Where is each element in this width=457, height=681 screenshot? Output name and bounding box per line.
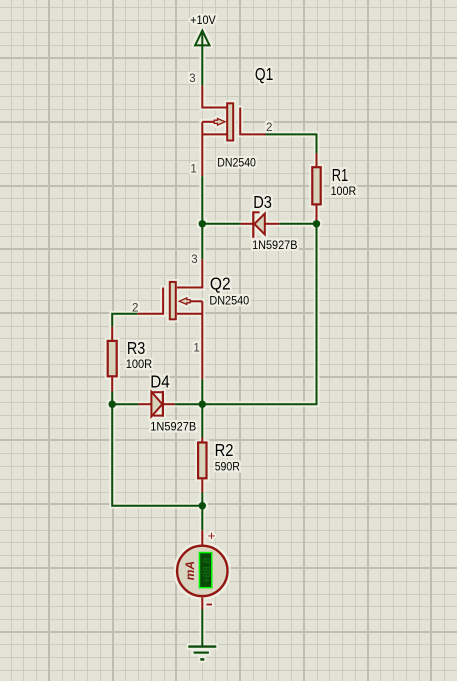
junction node B right [313, 220, 320, 227]
junction node C [199, 401, 206, 408]
ammeter pin top [201, 530, 203, 545]
power arrow symbol [195, 31, 209, 86]
resistor R3 [108, 327, 117, 392]
svg-text:D3: D3 [253, 192, 272, 212]
svg-text:590R: 590R [215, 462, 240, 474]
ground [188, 647, 216, 660]
transistor Q1 [202, 103, 266, 176]
power +10V label [190, 15, 216, 27]
svg-text:100R: 100R [126, 359, 153, 371]
svg-text:mA: mA [183, 561, 197, 580]
wire Q1 source down to node A [201, 176, 203, 224]
resistor R1 [312, 153, 320, 224]
svg-text:DN2540: DN2540 [209, 296, 249, 308]
diode D3 value 1N5927B [252, 240, 298, 252]
svg-text:3: 3 [189, 73, 195, 85]
resistor R2 value 590R [215, 462, 240, 474]
svg-text:1N5927B: 1N5927B [252, 240, 298, 252]
wire R2 bottom to node E [201, 493, 203, 506]
resistor R1 label [332, 165, 349, 185]
diode D3 label [253, 192, 272, 212]
svg-text:2: 2 [266, 122, 272, 134]
resistor R3 label [127, 338, 145, 358]
resistor R1 value 100R [331, 186, 357, 198]
ammeter LCD display [199, 552, 213, 589]
transistor Q2 [137, 282, 202, 379]
junction node D [109, 401, 116, 408]
pin label 3 of Q1 [189, 73, 195, 85]
wire ammeter to ground [201, 610, 203, 647]
wire node A down to Q2 drain [201, 224, 203, 259]
wire pin3 Q2 [177, 259, 202, 287]
pin label 1 of Q2 [193, 343, 199, 355]
ammeter minus terminal label [207, 604, 213, 606]
wire node A to D3 cathode [202, 223, 240, 225]
svg-text:1N5927B: 1N5927B [150, 421, 196, 433]
pin label 2 of Q2 [132, 302, 138, 314]
ammeter pin bottom [201, 597, 203, 609]
resistor R2 label [215, 440, 234, 460]
resistor R3 value 100R [126, 359, 153, 371]
wire right branch down and left to node C [202, 224, 316, 404]
transistor Q1 value DN2540 [217, 157, 256, 169]
wire pin3 Q1 [202, 86, 226, 108]
svg-text:Q1: Q1 [255, 64, 273, 84]
transistor Q2 value DN2540 [209, 296, 249, 308]
diode D4 zener [139, 391, 175, 417]
svg-text:R3: R3 [127, 338, 145, 358]
transistor Q1 label [255, 64, 273, 84]
junction node E [199, 502, 206, 509]
svg-text:Q2: Q2 [210, 274, 231, 294]
svg-text:+: + [208, 528, 216, 543]
svg-text:2: 2 [132, 302, 138, 314]
wire node C to R2 top [201, 404, 203, 437]
svg-text:DN2540: DN2540 [217, 157, 256, 169]
svg-text:1: 1 [190, 163, 196, 175]
wire node E to ammeter plus [201, 506, 203, 531]
pin label 3 of Q2 [191, 254, 197, 266]
svg-text:3: 3 [191, 254, 197, 266]
wire node D down left branch to node E [112, 404, 202, 506]
svg-text:D4: D4 [150, 372, 170, 392]
svg-text:100R: 100R [331, 186, 357, 198]
diode D4 label [150, 372, 170, 392]
wire Q2 pin2 to R3 top [112, 314, 137, 327]
wire Q2 source down to node C [201, 379, 203, 404]
svg-text:+10V: +10V [190, 15, 216, 27]
wire node D to D4 anode [112, 403, 138, 405]
pin label 2 of Q1 [266, 122, 272, 134]
wire D4 to node C [175, 403, 203, 405]
ammeter plus terminal label [208, 528, 216, 543]
wire R3 bottom to node D [111, 392, 113, 405]
diode D3 zener [241, 211, 280, 238]
wire D3 to right branch [279, 223, 316, 225]
wire Q1 pin2 to R1 top [266, 134, 317, 153]
ammeter body [177, 546, 227, 596]
svg-text:1: 1 [193, 343, 199, 355]
diode D4 value 1N5927B [150, 421, 196, 433]
transistor Q2 label [210, 274, 231, 294]
svg-text:R2: R2 [215, 440, 234, 460]
junction node A [199, 220, 206, 227]
svg-text:+88.8: +88.8 [202, 557, 213, 583]
resistor R2 [198, 438, 206, 493]
svg-text:R1: R1 [332, 165, 349, 185]
pin label 1 of Q1 [190, 163, 196, 175]
